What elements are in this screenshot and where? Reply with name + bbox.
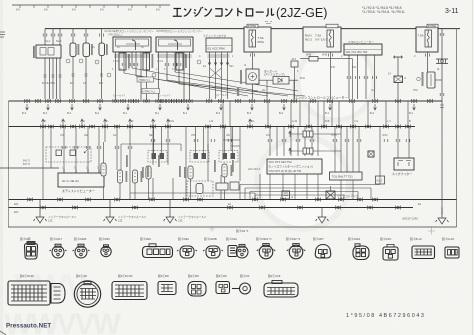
inter-bus wires <box>223 101 408 181</box>
circuit opening relay capsule <box>427 72 435 88</box>
VSV capsule B <box>188 166 193 179</box>
diode idle-up <box>273 77 289 85</box>
igniter no2 wires up <box>398 127 409 159</box>
connector c5 wide oval 4pin <box>143 244 173 258</box>
junction square <box>368 151 374 157</box>
main relay wire right column <box>441 29 443 215</box>
connector c2 round with tab <box>50 244 67 258</box>
check connector box DLC <box>206 38 232 52</box>
clutter wire color labels mid <box>44 120 411 123</box>
bus3-4 junctions <box>27 198 32 202</box>
DLC pin wires <box>210 52 228 99</box>
title: engine control (2JZ-GE) katakana strokes <box>173 7 274 16</box>
cam position sensor wires <box>45 29 60 99</box>
bottom margin labels under bus4 <box>14 203 422 214</box>
igniter capsule IC1 <box>117 170 122 183</box>
bus2 stub arrows above <box>42 119 45 125</box>
fusible link W-B <box>309 57 318 62</box>
connector d5 rect multipin <box>158 282 176 295</box>
circled number marks top <box>107 73 111 77</box>
VSV capsule C <box>222 164 227 177</box>
watermark circle upper <box>298 44 374 120</box>
relay label vertical <box>240 70 242 84</box>
VSV capsule A <box>146 166 151 179</box>
ground G5 right <box>436 215 449 224</box>
connector block under B1 right <box>143 53 150 70</box>
interconnect wires mid <box>121 144 208 170</box>
fuse RUN No.2 F2 <box>303 27 341 52</box>
micro tick pairs under B1 pins <box>122 63 126 66</box>
connector pair on right column <box>436 59 448 64</box>
TDCL box <box>330 172 363 180</box>
connector block under B1 left <box>119 53 126 70</box>
frame bottom border <box>8 226 457 228</box>
small junction box mid <box>282 191 290 199</box>
right edge scan line <box>472 0 474 335</box>
TRC label box 2 <box>142 89 160 94</box>
connector c13 oval 2x2 <box>353 244 369 260</box>
routing wire lower mid <box>130 193 255 200</box>
wire below F2 <box>330 52 332 99</box>
micro labels scatter top <box>203 65 441 92</box>
connector d3 big round multipin <box>74 281 100 307</box>
DLC migration arrows <box>208 59 211 65</box>
extra junctions bus3 bus4 <box>40 206 45 210</box>
connector d4 wide multipin <box>112 282 147 300</box>
J1 label vertical <box>33 46 35 58</box>
stub labels below bus1 <box>22 111 414 115</box>
knock sensor capsule S3 <box>101 29 103 99</box>
ECU bus line 3 <box>9 199 457 201</box>
frame left border <box>8 101 10 227</box>
igniter capsule IC2 <box>132 170 137 183</box>
VSV capsule D <box>101 163 106 176</box>
ground stub wires <box>40 200 442 216</box>
connector c10 round with side ears <box>257 244 276 259</box>
bus1 junction connectors <box>24 99 29 103</box>
connector d9 long boat multipin <box>264 281 298 298</box>
shift lock ECU box with X <box>326 191 335 199</box>
left margin binding marks <box>0 32 5 37</box>
watermark cross mark <box>428 228 435 235</box>
connector c1 rounded square dark cap <box>25 242 38 260</box>
watermark plus top-left of connector row <box>209 226 215 232</box>
VSV dashed box 2 <box>190 151 209 163</box>
noise filter box <box>267 159 322 174</box>
wire below F3 <box>427 52 429 72</box>
connector row2 labels <box>20 274 281 278</box>
connector d8 circle with stub <box>232 283 251 294</box>
ground G4 <box>316 214 329 223</box>
labels below bus2 <box>60 134 388 137</box>
wire to combination meter (left exit) <box>0 167 59 169</box>
igniter no2 box right <box>394 158 414 170</box>
wire from fuse area down right <box>331 59 353 99</box>
crossing wires left of DLC <box>210 68 222 78</box>
bottom left corner mark <box>0 331 6 335</box>
connector d7 small square <box>216 282 230 294</box>
connector d6 oval <box>188 282 206 297</box>
right column tick marks <box>440 33 444 36</box>
TRC pin wires <box>349 55 375 99</box>
connector c3 round with tab <box>73 244 90 258</box>
connector c15 wide low multipin <box>412 246 435 259</box>
B1 pins and wires <box>116 52 147 100</box>
fuse DOME F1 <box>244 27 271 52</box>
ECU bus line 2 <box>9 126 416 128</box>
ECU bus line 4 <box>9 207 414 209</box>
flying capacitor connector 2 <box>290 150 341 152</box>
small relay box pair <box>216 183 228 190</box>
noise filter dashed box <box>187 181 213 196</box>
water temp sensor capsule S2 <box>85 29 87 99</box>
cam sensor connector box J1 <box>36 45 61 58</box>
connector c16 small wide rect <box>445 247 459 258</box>
connector d2 D-shape <box>51 284 65 304</box>
wires descending from bus2 left <box>43 127 240 200</box>
clutter labels top section <box>45 39 416 97</box>
stop light switch wire <box>393 57 403 99</box>
water temp sender capsule S1 <box>72 29 74 99</box>
vertical label bars mid section <box>126 155 128 167</box>
connector c4 small round <box>101 245 111 257</box>
connector c8 small dark square <box>228 246 237 257</box>
bus2 junction connectors <box>40 125 45 129</box>
mid tick pairs on descenders <box>62 146 66 149</box>
connector c9 round with tabs <box>236 244 248 258</box>
connector d1 large grid multipin <box>8 281 50 305</box>
page continuation bus top-left <box>12 4 170 6</box>
connector c11 round with side ears <box>287 244 306 259</box>
noise filter no2 small box <box>376 176 385 184</box>
diagonal wires to TRC <box>124 68 305 96</box>
distributor box <box>58 173 104 187</box>
left edge scan shading <box>0 0 3 335</box>
spark plug dashed box <box>46 147 91 162</box>
connector ticks on sensor wires <box>43 34 47 37</box>
continuation labels <box>16 9 160 12</box>
EFI relay <box>246 69 259 84</box>
micro labels under sensor pins <box>112 68 174 97</box>
fuse DOME F3 right <box>416 27 438 52</box>
connector c14 square with top tab <box>383 244 398 260</box>
connector c12 dome 3pin <box>315 245 331 259</box>
header rule <box>45 28 460 30</box>
connector c6 oval with ears <box>177 246 197 258</box>
B2 pins and wires <box>159 52 190 100</box>
relay label vertical <box>422 72 424 86</box>
J1 lower labels <box>44 75 62 77</box>
flying capacitor connector 1 <box>290 133 341 135</box>
TRC label box 1 <box>137 77 154 82</box>
ground G1 <box>34 214 47 223</box>
connector c7 oval with ears <box>203 246 223 258</box>
TRC computer box <box>344 44 382 55</box>
frame right border <box>456 29 458 227</box>
diode wires <box>259 80 298 99</box>
ground G3 <box>164 214 177 223</box>
wire below F1 <box>252 52 254 99</box>
bus1 stub arrows below <box>26 104 416 110</box>
junction component AT1 <box>291 61 298 67</box>
VSV dashed box 1 <box>148 151 167 163</box>
connector row1 labels <box>20 229 455 241</box>
tiny marks above frame <box>265 22 272 24</box>
ECU bus line 1 <box>9 100 443 102</box>
VSV dashed box 3 <box>219 151 238 163</box>
nested routing wires right <box>240 174 380 200</box>
ground G2 <box>104 214 117 223</box>
connector block under B2 <box>176 53 183 70</box>
watermark circle lower <box>257 137 349 229</box>
junction connector X-box <box>394 76 403 83</box>
resistor label block left <box>237 87 239 96</box>
